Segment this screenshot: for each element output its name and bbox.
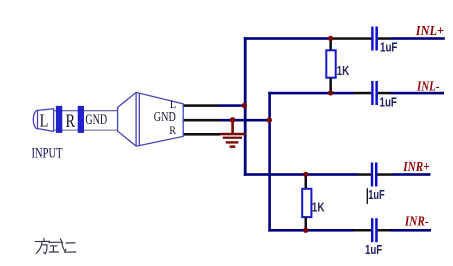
svg-text:R: R	[169, 123, 176, 137]
junction dot row3/R2	[303, 172, 308, 177]
wire row3 cap C3 left pin (black)	[358, 173, 371, 176]
wire pin R to bus V1 (dark red, merges ground bar)	[220, 133, 246, 136]
wire vertical bus V2 (x=270, rows 2-4)	[268, 92, 271, 232]
svg-text:INL+: INL+	[415, 23, 444, 38]
wire row2 INL- navy left segment	[268, 92, 354, 95]
wire row4 navy right segment	[390, 229, 431, 232]
wire row2 cap C2 right pin (black)	[378, 92, 391, 95]
svg-text:INL-: INL-	[416, 79, 440, 94]
svg-text:1uF: 1uF	[365, 242, 382, 257]
junction dot row4/R2	[303, 228, 308, 233]
wire pin L to bus V1 (navy)	[218, 104, 246, 107]
resistor R2 1K body	[302, 189, 311, 217]
junction dot GND/V2	[267, 117, 272, 122]
caption 方式二 (drawn strokes)	[35, 238, 76, 253]
ground symbol stem	[231, 120, 234, 134]
resistor R1 1K body	[326, 50, 335, 77]
resistor R1 1K top lead (black)	[329, 40, 332, 50]
ground symbol bar3	[226, 141, 239, 143]
capacitor C3 1uF	[371, 163, 378, 187]
wire row3 cap C3 right pin (black)	[378, 173, 393, 176]
svg-text:INPUT: INPUT	[32, 146, 63, 162]
stray vertical stub near C3 label	[367, 188, 368, 204]
jack pin L wire (black)	[184, 104, 220, 107]
resistor R2 1K top lead (black)	[305, 177, 308, 189]
svg-text:INR+: INR+	[402, 159, 429, 174]
jack pin GND wire (black)	[184, 119, 221, 122]
svg-text:1uF: 1uF	[368, 187, 385, 202]
capacitor C4 1uF	[371, 218, 378, 242]
junction dot row2/R1	[328, 90, 333, 95]
wire row1 cap C1 right pin (black)	[378, 37, 391, 40]
svg-text:1K: 1K	[312, 200, 325, 215]
svg-text:INR-: INR-	[404, 214, 429, 229]
wire row3 navy right segment	[392, 173, 431, 176]
wire vertical bus V1 (x=245, rows 1-3)	[244, 37, 247, 176]
svg-text:1uF: 1uF	[380, 39, 397, 54]
wire row1 navy right segment	[391, 37, 445, 40]
resistor R2 1K bottom lead (black)	[305, 217, 308, 230]
junction dot ground tap on GND wire	[230, 117, 236, 123]
wire row2 cap C2 left pin (black)	[354, 92, 371, 95]
svg-text:R: R	[66, 112, 76, 132]
resistor R1 1K bottom lead (black)	[329, 78, 332, 92]
junction dot L/V1	[242, 103, 247, 108]
ground symbol bar4	[230, 145, 236, 148]
junction dot row1/R1	[328, 36, 333, 41]
svg-text:GND: GND	[85, 112, 107, 128]
wire row4 INR- navy left segment	[268, 229, 354, 232]
audio jack J1: tip body trapezoid	[38, 109, 54, 132]
wire row2 navy right segment	[391, 92, 445, 95]
capacitor C1 1uF	[371, 27, 378, 51]
barrel top edge	[54, 110, 118, 111]
svg-text:L: L	[40, 110, 49, 130]
jack ring band 2	[78, 106, 84, 133]
wire row3 INR+ navy left segment	[244, 173, 358, 176]
wire row1 cap C1 left pin (black)	[333, 37, 372, 40]
svg-text:1K: 1K	[337, 63, 350, 78]
wire row4 cap C4 left pin (black)	[354, 229, 371, 232]
jack pin R wire (black)	[184, 133, 221, 136]
wire row1 INL+ navy left segment	[244, 37, 333, 40]
svg-text:1uF: 1uF	[380, 95, 397, 110]
jack body seam line 1	[135, 93, 137, 146]
capacitor C2 1uF	[371, 81, 378, 105]
ground symbol bar2	[223, 137, 242, 139]
barrel bottom edge	[54, 130, 118, 131]
jack body seam line 2	[138, 93, 140, 145]
jack body trapezoid	[118, 92, 184, 146]
audio jack J1: tip ellipse	[33, 110, 42, 128]
jack ring band 1	[56, 106, 62, 133]
wire row4 cap C4 right pin (black)	[378, 229, 390, 232]
wire pin GND to bus V2 (navy)	[220, 119, 270, 122]
